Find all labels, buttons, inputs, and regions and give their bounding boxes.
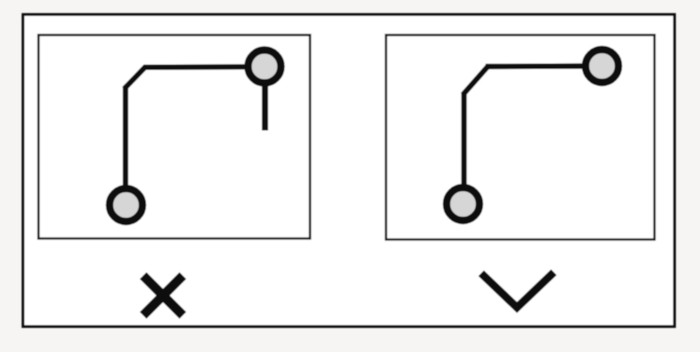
pad: left panel bottom-left via: [110, 189, 143, 222]
wire: left vertical segment: [123, 88, 128, 204]
wire: left horizontal segment: [144, 64, 261, 70]
wire: right horizontal segment: [486, 63, 598, 69]
right panel box: [386, 35, 655, 240]
symbol: check / chevron (correct) under right panel: [484, 275, 551, 308]
pad: left panel top-right via: [248, 50, 281, 83]
pad: right panel top-right via: [586, 50, 619, 83]
wire: left 45-degree bend: [124, 67, 145, 89]
wire: right 45-degree bend: [463, 67, 488, 95]
symbol: X (wrong) under left panel: [147, 279, 180, 312]
wire: right vertical segment: [461, 94, 466, 203]
pad: right panel bottom-left via: [447, 188, 480, 221]
left panel box: [39, 35, 311, 239]
wire: stub below top-right pad (error): [262, 84, 268, 131]
